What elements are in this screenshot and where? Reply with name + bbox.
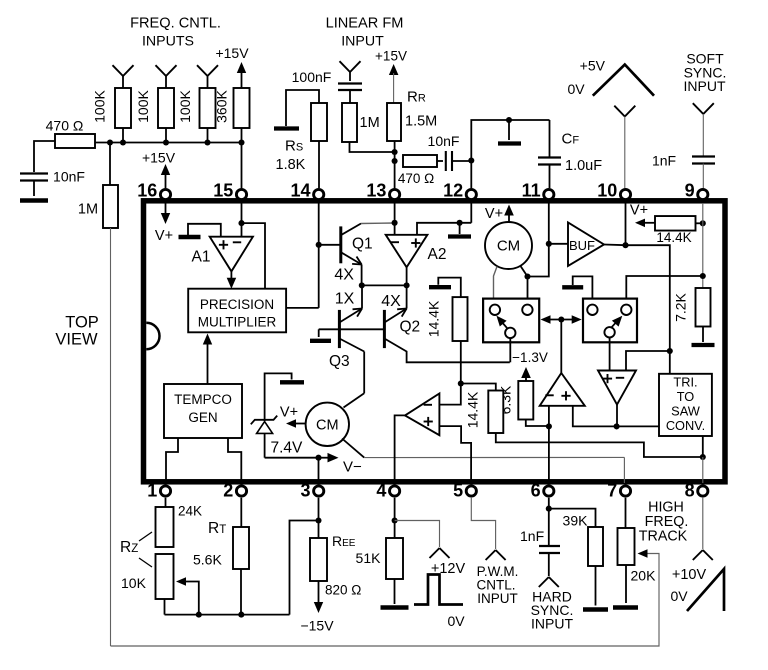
svg-text:INPUT: INPUT (341, 34, 384, 50)
svg-text:Q3: Q3 (329, 353, 350, 370)
svg-text:1.0uF: 1.0uF (565, 158, 602, 174)
svg-text:2: 2 (223, 481, 233, 501)
svg-text:+5V: +5V (580, 58, 606, 74)
svg-text:SAW: SAW (671, 404, 701, 419)
svg-text:INPUT: INPUT (684, 78, 726, 94)
svg-text:100K: 100K (92, 89, 108, 122)
svg-text:V−: V− (343, 459, 362, 476)
svg-text:TRACK: TRACK (639, 529, 688, 545)
svg-text:5: 5 (453, 481, 463, 501)
svg-text:24K: 24K (178, 504, 202, 519)
svg-text:1X: 1X (335, 291, 355, 308)
svg-text:14.4K: 14.4K (656, 230, 691, 245)
svg-text:MULTIPLIER: MULTIPLIER (198, 315, 277, 330)
svg-text:VIEW: VIEW (55, 331, 98, 349)
svg-text:+15V: +15V (215, 45, 249, 61)
svg-text:470 Ω: 470 Ω (398, 171, 434, 186)
svg-text:1nF: 1nF (652, 153, 676, 169)
svg-text:10: 10 (597, 181, 617, 201)
svg-text:−1.3V: −1.3V (512, 350, 548, 365)
svg-text:CM: CM (497, 238, 520, 255)
svg-text:15: 15 (213, 181, 233, 201)
svg-text:+15V: +15V (375, 49, 407, 64)
svg-text:0V: 0V (567, 81, 585, 97)
svg-text:LINEAR FM: LINEAR FM (326, 16, 404, 32)
svg-text:13: 13 (366, 181, 386, 201)
svg-text:5.6K: 5.6K (193, 552, 222, 568)
svg-text:INPUT: INPUT (531, 616, 573, 632)
svg-text:TOP: TOP (65, 314, 99, 332)
svg-text:4: 4 (376, 481, 386, 501)
svg-text:470 Ω: 470 Ω (46, 118, 84, 134)
svg-text:9: 9 (685, 181, 695, 201)
svg-text:10nF: 10nF (53, 169, 85, 185)
svg-text:3: 3 (300, 481, 310, 501)
svg-text:V+: V+ (155, 228, 173, 244)
svg-text:INPUTS: INPUTS (142, 34, 194, 50)
svg-text:14: 14 (290, 181, 310, 201)
svg-text:TO: TO (677, 389, 695, 404)
svg-text:+15V: +15V (142, 150, 176, 166)
svg-text:V+: V+ (630, 203, 648, 219)
svg-text:TEMPCO: TEMPCO (174, 392, 232, 407)
svg-text:4X: 4X (334, 266, 354, 283)
svg-text:TRI.: TRI. (673, 375, 697, 390)
svg-text:Q1: Q1 (352, 236, 373, 253)
svg-text:FREQ. CNTL.: FREQ. CNTL. (130, 16, 221, 32)
svg-text:51K: 51K (356, 550, 382, 566)
svg-text:1M: 1M (360, 115, 380, 131)
svg-text:820 Ω: 820 Ω (325, 583, 361, 598)
svg-text:16: 16 (137, 181, 157, 201)
svg-text:6: 6 (531, 481, 541, 501)
svg-text:100K: 100K (135, 89, 151, 122)
svg-text:BUF: BUF (569, 238, 595, 253)
svg-text:20K: 20K (631, 568, 657, 584)
svg-text:0V: 0V (670, 588, 688, 604)
svg-text:7: 7 (607, 481, 617, 501)
svg-text:14.4K: 14.4K (465, 391, 481, 428)
svg-text:Q2: Q2 (400, 319, 421, 336)
svg-text:7.2K: 7.2K (673, 292, 689, 321)
svg-text:CM: CM (316, 418, 339, 434)
svg-text:1M: 1M (78, 202, 98, 218)
svg-text:A2: A2 (428, 246, 447, 263)
svg-text:10nF: 10nF (428, 133, 460, 149)
svg-text:39K: 39K (563, 513, 589, 529)
svg-text:V+: V+ (485, 206, 503, 222)
svg-text:1nF: 1nF (520, 528, 544, 544)
svg-text:10K: 10K (121, 575, 147, 591)
svg-text:7.4V: 7.4V (271, 439, 304, 456)
svg-text:INPUT: INPUT (477, 591, 518, 606)
svg-text:360K: 360K (214, 89, 230, 122)
svg-text:14.4K: 14.4K (426, 300, 442, 337)
svg-text:1: 1 (147, 481, 157, 501)
svg-text:A1: A1 (192, 248, 211, 265)
svg-text:8: 8 (685, 481, 695, 501)
svg-text:11: 11 (522, 181, 541, 201)
svg-text:100nF: 100nF (292, 69, 332, 85)
svg-text:1.8K: 1.8K (276, 157, 306, 173)
svg-text:0V: 0V (447, 613, 465, 629)
svg-text:4X: 4X (381, 293, 401, 310)
svg-text:100K: 100K (177, 89, 193, 122)
svg-text:−15V: −15V (300, 618, 334, 634)
svg-text:GEN: GEN (188, 410, 217, 425)
svg-text:V+: V+ (280, 405, 298, 421)
svg-text:12: 12 (443, 181, 463, 201)
svg-text:1.5M: 1.5M (405, 114, 437, 130)
svg-text:+10V: +10V (672, 567, 707, 583)
svg-text:PRECISION: PRECISION (200, 297, 274, 312)
svg-text:CONV.: CONV. (666, 418, 705, 433)
